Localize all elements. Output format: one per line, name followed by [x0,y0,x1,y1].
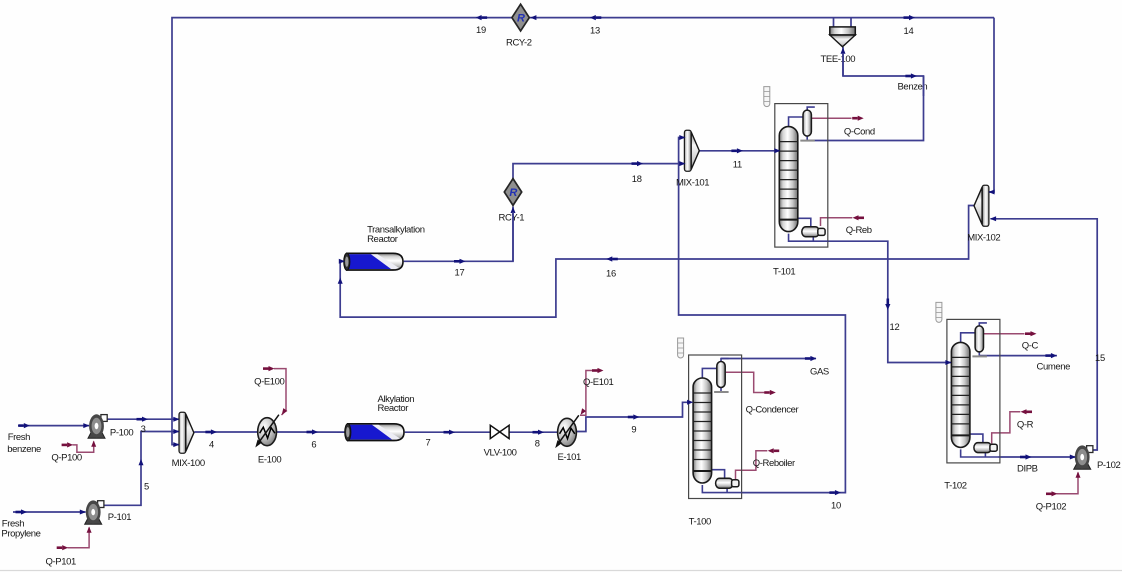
svg-text:Q-Cond: Q-Cond [844,127,875,138]
arrow stream Benzen [905,73,917,78]
recycle RCY-1 [504,179,521,206]
svg-text:19: 19 [476,24,486,35]
energy wire Q-R [992,412,1021,444]
svg-text:Reactor: Reactor [367,234,398,245]
arrow stream 13 into RCY-2 [530,15,536,20]
svg-text:12: 12 [890,321,900,332]
energy wire Q-Reb [821,218,853,226]
mixer MIX-100 [179,412,194,453]
arrow stream 6 [307,429,319,434]
energy wire Q-Cond [811,117,852,119]
svg-text:13: 13 [590,25,600,36]
arrow energy Q-C [1025,331,1037,336]
arrow stream 9 into T-100 [687,400,693,405]
wire stream 16 MIX-102 to transalkylation reactor [340,206,974,318]
svg-text:T-101: T-101 [773,267,795,278]
energy wire Q-C [982,333,1024,335]
arrow stream 11 [731,148,743,153]
svg-text:10: 10 [831,500,841,511]
energy wire Q-E100 [274,369,286,415]
pump P-102 [1074,445,1093,469]
svg-text:P-101: P-101 [108,512,131,523]
wire stream 18 RCY-1 to MIX-101 [513,164,685,179]
wire stream Cumene from T-102 condenser [979,355,1057,357]
tee TEE-100 [830,27,856,47]
wire stream 1 Fresh benzene to P-100 [18,425,89,427]
svg-text:Q-P101: Q-P101 [46,557,76,568]
pump P-101 [85,500,104,524]
svg-text:RCY-2: RCY-2 [506,38,532,49]
arrow energy Q-Reboiler [768,448,780,453]
wire stream 14 TEE-100 to MIX-102 [990,18,995,192]
arrow stream 13 [590,15,602,20]
svg-text:17: 17 [455,267,465,278]
arrow energy Q-P101 [57,545,69,550]
arrow stream 3 [137,417,149,422]
svg-text:Q-E101: Q-E101 [583,377,613,388]
wire stream 11 MIX-101 to T-101 [699,150,780,152]
energy wire Q-Condencer [726,372,766,392]
arrow into P-101 [80,510,86,515]
svg-text:T-100: T-100 [689,517,711,528]
svg-text:GAS: GAS [810,367,829,378]
svg-text:MIX-101: MIX-101 [676,178,709,189]
svg-text:14: 14 [904,25,914,36]
svg-text:DIPB: DIPB [1017,464,1038,475]
svg-text:Q-P100: Q-P100 [51,452,81,463]
svg-text:6: 6 [311,439,316,450]
arrow energy Q-E100 [263,366,275,371]
svg-text:11: 11 [733,159,742,170]
svg-text:MIX-102: MIX-102 [967,233,1000,244]
wire stream DIPB T-102 bottoms to P-102 [999,456,1076,458]
arrow stream 16 into reactor [339,259,345,264]
svg-text:5: 5 [144,481,149,492]
svg-text:P-100: P-100 [110,428,133,439]
svg-text:TEE-100: TEE-100 [821,54,856,65]
svg-text:benzene: benzene [7,444,41,455]
svg-text:E-100: E-100 [258,455,281,466]
svg-text:7: 7 [426,437,431,448]
arrow stream 11 into T-101 [774,148,780,153]
svg-text:Q-Condencer: Q-Condencer [746,405,799,416]
svg-text:18: 18 [632,173,642,184]
arrow stream 17 [454,259,466,264]
arrow stream 4 [205,429,217,434]
wire overdraw Benzen corner [923,76,925,96]
arrow stream DIPB [1020,454,1032,459]
arrow stream 12 down [885,299,890,311]
wire stream 6 E-100 to alkylation reactor [277,431,347,433]
wire stream 12 T-101 bottoms to T-102 [828,241,951,362]
wire overdraw TEE-100 stem [842,53,844,76]
arrow stream 5 into MIX-100 [173,429,179,434]
bottom faint rule [0,570,1122,572]
arrow stream 16 [606,256,618,261]
wire stream 5 P-101 to MIX-100 [104,432,179,506]
arrow stream GAS [805,356,817,361]
svg-text:RCY-1: RCY-1 [499,213,525,224]
heater E-100 [255,415,279,448]
svg-text:4: 4 [209,439,214,450]
arrow energy Q-Reb [853,215,865,220]
svg-text:P-102: P-102 [1097,460,1120,471]
svg-text:Q-Reboiler: Q-Reboiler [753,458,795,469]
wire stream GAS from T-100 condenser [721,358,816,360]
column T-100 [678,338,742,499]
arrow energy into E-101 [579,408,587,416]
column T-101 [764,87,828,248]
wire stream 9 E-101 to T-100 [576,402,688,431]
arrow stream 7 [444,430,456,435]
arrow stream Cumene [1045,353,1057,358]
svg-text:MIX-100: MIX-100 [172,458,205,469]
reactor Alkylation [345,424,404,441]
arrow energy Q-Condencer [764,390,776,395]
svg-text:9: 9 [631,424,636,435]
energy wire Q-P101 [68,528,90,548]
svg-text:Q-E100: Q-E100 [254,377,284,388]
svg-text:15: 15 [1095,352,1105,363]
arrow energy into E-100 [280,408,288,416]
wire stream 4 MIX-100 to E-100 [194,431,257,433]
svg-text:VLV-100: VLV-100 [484,448,517,459]
arrow stream 15 into MIX-102 [990,216,996,221]
arrow stream 17 into RCY-1 [511,207,516,213]
svg-text:Propylene: Propylene [1,529,40,540]
arrow stream 8 [533,430,545,435]
svg-text:16: 16 [606,268,616,279]
wire stream 8 VLV-100 to E-101 [509,431,558,433]
pump P-100 [88,414,107,438]
arrow energy into P-100 [91,441,96,447]
mixer MIX-101 [684,130,699,171]
energy wire Q-P102 [1057,473,1079,494]
arrow stream 18 into MIX-101 [679,161,685,166]
wire TEE-100 inlet pipes [833,18,835,28]
arrow energy Q-R [1021,409,1033,414]
wire stream 17 reactor to RCY-1 [404,207,513,262]
wire stream Fresh Propylene to P-101 [13,511,86,513]
arrow DIPB into P-102 [1070,455,1076,460]
arrow energy into P-101 [87,527,92,533]
wire stream 3 P-100 to MIX-100 [107,418,179,420]
svg-text:Q-Reb: Q-Reb [846,225,872,236]
arrow stream 18 [632,161,644,166]
wire stream 10 T-100 bottoms to MIX-101 [679,138,846,493]
reactor Transalkylation [344,253,403,270]
wire recycle streams 13/19 top line into MIX-100 [172,18,994,445]
arrow stream 14 into MIX-102 [988,190,994,195]
energy wire Q-Reboiler [736,451,768,480]
arrow energy Q-P100 [62,442,74,447]
arrow stream 10 into MIX-101 [679,135,685,140]
arrow stream 14 [904,15,916,20]
arrow stream 16 up [338,278,343,284]
wire stream 15 P-102 to MIX-102 [991,219,1098,450]
arrow energy Q-E101 [592,368,604,373]
svg-text:E-101: E-101 [558,452,581,463]
svg-text:Cumene: Cumene [1037,362,1071,373]
svg-text:T-102: T-102 [944,481,966,492]
arrow stream 19 into MIX-100 [173,442,179,447]
arrow fresh propylene [16,509,28,514]
svg-text:Q-C: Q-C [1022,341,1039,352]
svg-text:Fresh: Fresh [8,432,30,443]
svg-text:Q-P102: Q-P102 [1036,502,1066,513]
column T-102 [936,302,1000,463]
svg-text:8: 8 [535,438,540,449]
arrow stream 12 into T-102 [945,360,951,365]
arrow stream 5 up [139,459,144,465]
arrow stream 10 [829,490,841,495]
wire overdraw RCY-1 stem [512,212,514,261]
heater E-101 [555,415,579,448]
energy wire Q-P100 [73,442,94,453]
energy wire Q-E101 [580,371,594,416]
arrow energy Q-P102 [1046,491,1058,496]
arrow into TEE-100 [841,48,846,54]
arrow energy Q-Cond [852,116,864,121]
mixer MIX-102 [974,185,989,226]
svg-text:Q-R: Q-R [1017,420,1034,431]
wire stream 7 reactor to VLV-100 [405,431,491,433]
valve VLV-100 [490,425,509,438]
svg-text:3: 3 [141,423,146,434]
arrow stream 3 into MIX-100 [173,417,179,422]
recycle RCY-2 [512,4,529,31]
arrow into P-100 [83,423,89,428]
wire stream Benzen TEE-100 to T-101 condenser [807,47,923,141]
arrow energy into P-102 [1076,472,1081,478]
arrow fresh benzene [18,423,30,428]
svg-text:Reactor: Reactor [378,403,409,414]
arrow stream 19 [476,15,488,20]
arrow stream 9 [628,414,640,419]
